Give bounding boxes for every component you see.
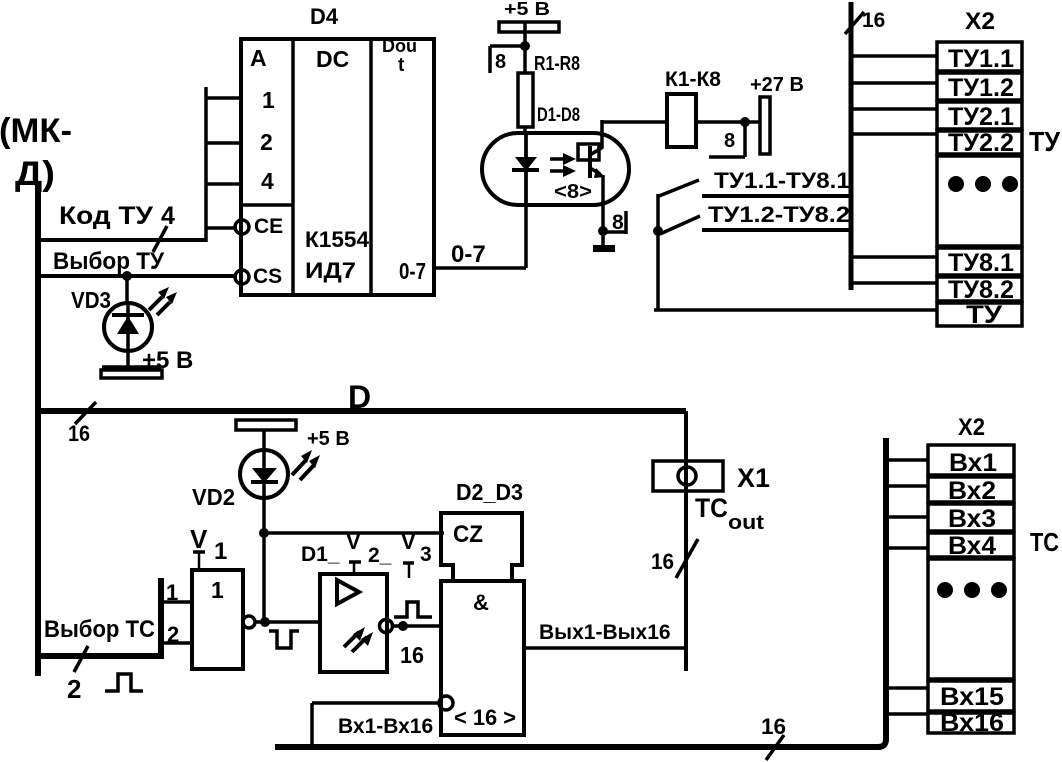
svg-text:<8>: <8>: [554, 181, 592, 203]
svg-text:ТУ8.1: ТУ8.1: [948, 249, 1014, 277]
svg-text:Выбор ТС: Выбор ТС: [44, 616, 155, 643]
svg-text:16: 16: [761, 714, 786, 739]
svg-text:&: &: [473, 590, 489, 615]
svg-text:V: V: [401, 529, 416, 554]
svg-text:Вх1-Вх16: Вх1-Вх16: [338, 715, 433, 738]
svg-text:ТУ1.1: ТУ1.1: [948, 45, 1014, 73]
svg-text:CZ: CZ: [453, 521, 483, 548]
svg-text:ТУ2.1: ТУ2.1: [948, 103, 1014, 131]
svg-text:CS: CS: [253, 265, 282, 288]
svg-text:ИД7: ИД7: [305, 258, 356, 283]
svg-text:16: 16: [400, 642, 424, 668]
svg-text:Вх1: Вх1: [949, 449, 997, 477]
svg-text:TC: TC: [695, 493, 728, 523]
svg-text:8: 8: [495, 51, 506, 73]
svg-text:V: V: [346, 529, 361, 554]
svg-text:VD3: VD3: [71, 287, 111, 313]
svg-text:Код ТУ: Код ТУ: [59, 202, 153, 230]
svg-text:Dou: Dou: [382, 36, 417, 56]
svg-text:ТС: ТС: [1030, 527, 1059, 557]
svg-text:+5 В: +5 В: [504, 0, 550, 19]
svg-text:+27 В: +27 В: [750, 74, 804, 96]
svg-text:2: 2: [260, 129, 273, 155]
svg-text:2: 2: [67, 674, 81, 704]
svg-text:ТУ1.1-ТУ8.1: ТУ1.1-ТУ8.1: [714, 168, 850, 193]
svg-text:Вх16: Вх16: [940, 709, 1004, 737]
svg-text:ТУ: ТУ: [1029, 126, 1061, 157]
svg-text:< 16 >: < 16 >: [454, 705, 516, 730]
svg-text:(МК-: (МК-: [0, 112, 72, 150]
svg-text:A: A: [250, 45, 267, 71]
svg-text:Вх15: Вх15: [940, 683, 1004, 711]
svg-text:R1-R8: R1-R8: [534, 53, 580, 75]
svg-text:0-7: 0-7: [451, 241, 486, 268]
svg-text:Вх4: Вх4: [948, 532, 996, 560]
svg-text:0-7: 0-7: [399, 258, 426, 284]
svg-text:t: t: [398, 55, 405, 76]
svg-text:ТУ8.2: ТУ8.2: [948, 276, 1014, 304]
svg-text:CE: CE: [254, 215, 283, 238]
svg-text:ТУ: ТУ: [966, 301, 1003, 329]
svg-text:out: out: [728, 512, 764, 534]
svg-text:2: 2: [167, 622, 179, 647]
svg-text:К1554: К1554: [305, 227, 370, 252]
svg-text:D2_D3: D2_D3: [456, 479, 523, 505]
svg-text:3: 3: [420, 543, 432, 566]
svg-text:DC: DC: [316, 46, 349, 72]
svg-text:D1-D8: D1-D8: [537, 105, 580, 126]
svg-text:ТУ2.2: ТУ2.2: [948, 129, 1014, 157]
svg-text:+5 В: +5 В: [307, 428, 350, 450]
svg-text:ТУ1.2: ТУ1.2: [948, 74, 1014, 102]
svg-text:V: V: [190, 524, 208, 554]
svg-text:VD2: VD2: [192, 484, 235, 510]
svg-text:Вых1-Вых16: Вых1-Вых16: [539, 621, 671, 644]
svg-text:Вх2: Вх2: [948, 477, 996, 505]
svg-text:К1-К8: К1-К8: [665, 68, 721, 91]
svg-text:D4: D4: [310, 4, 339, 29]
svg-text:ТУ1.2-ТУ8.2: ТУ1.2-ТУ8.2: [708, 202, 850, 227]
svg-text:8: 8: [612, 211, 624, 234]
svg-text:X2: X2: [958, 414, 985, 441]
svg-text:X1: X1: [737, 463, 770, 493]
svg-text:4: 4: [161, 202, 175, 230]
svg-text:1: 1: [214, 538, 227, 565]
svg-text:4: 4: [261, 168, 274, 194]
svg-text:16: 16: [651, 549, 674, 574]
svg-text:1: 1: [262, 87, 275, 113]
svg-text:2_: 2_: [368, 544, 392, 567]
svg-text:16: 16: [68, 421, 90, 446]
svg-text:1: 1: [166, 580, 178, 605]
svg-text:Выбор ТУ: Выбор ТУ: [53, 248, 165, 275]
svg-text:8: 8: [724, 130, 735, 152]
svg-text:X2: X2: [965, 8, 995, 35]
svg-text:16: 16: [862, 9, 885, 32]
svg-text:D1_: D1_: [301, 543, 340, 566]
svg-text:1: 1: [211, 577, 224, 603]
svg-text:Вх3: Вх3: [948, 505, 996, 533]
